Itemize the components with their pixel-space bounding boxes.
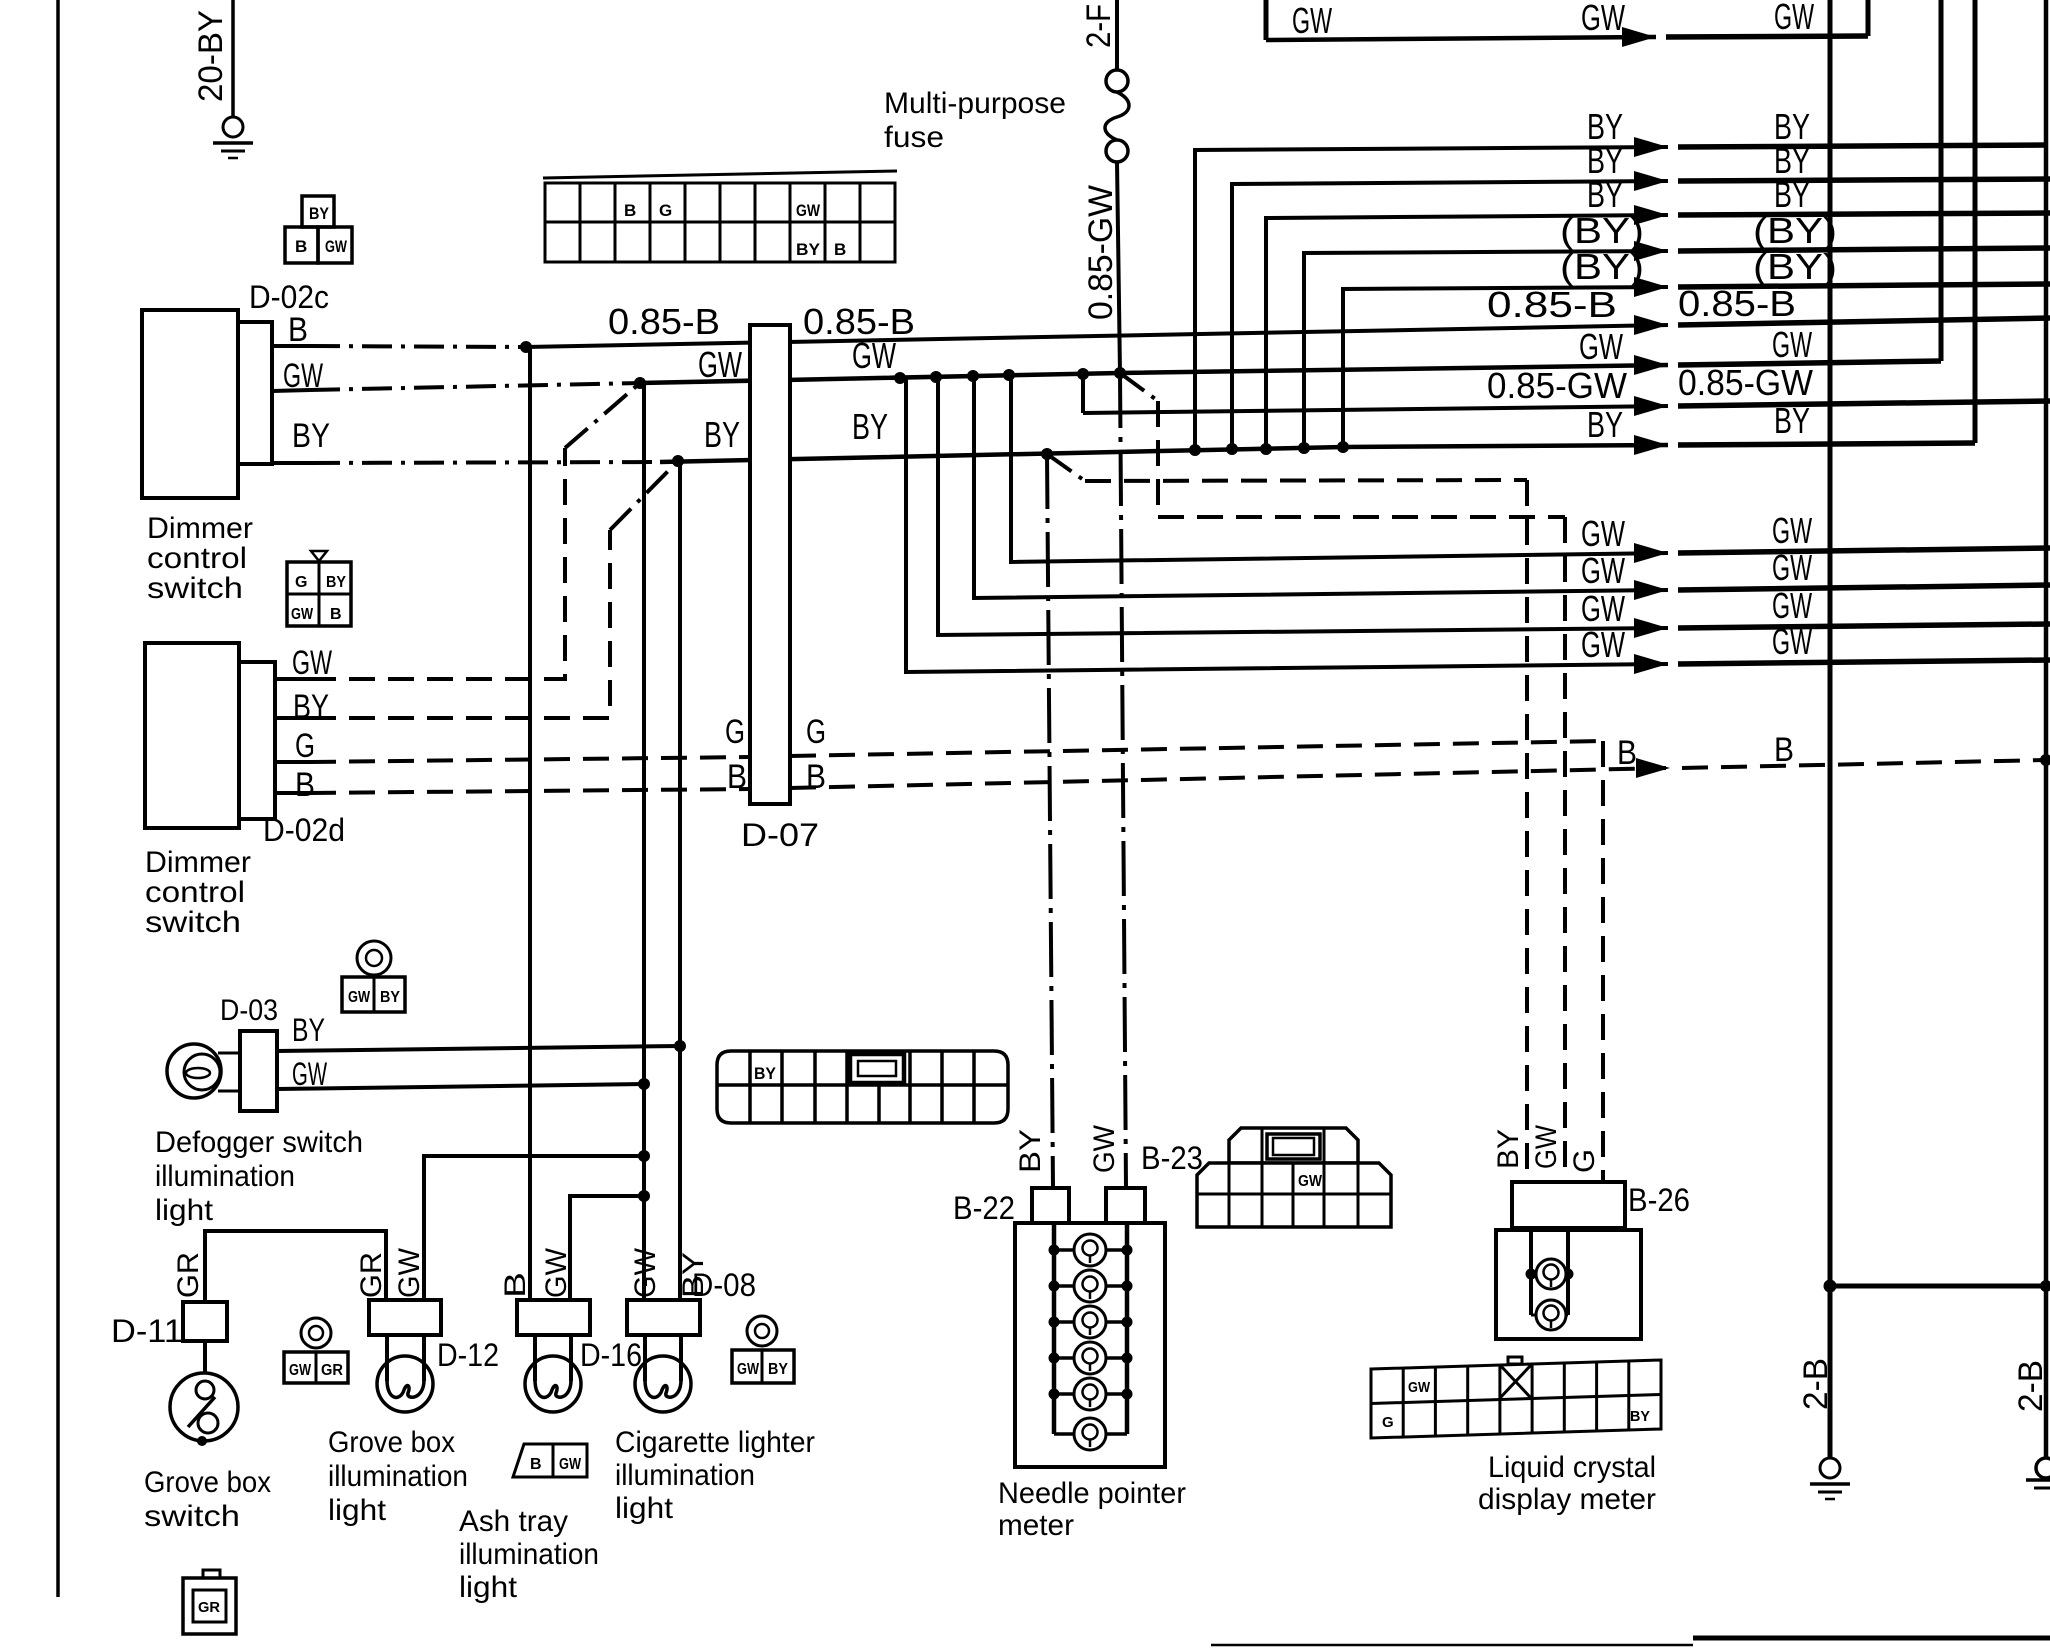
svg-text:B: B xyxy=(295,237,307,256)
svg-text:BY: BY xyxy=(326,574,346,591)
svg-text:GW: GW xyxy=(1772,585,1812,626)
svg-text:GW: GW xyxy=(291,606,314,623)
svg-text:BY: BY xyxy=(1774,174,1810,215)
svg-text:GW: GW xyxy=(1581,513,1625,554)
svg-text:D-11: D-11 xyxy=(111,1313,183,1349)
svg-text:illumination: illumination xyxy=(459,1538,599,1571)
svg-text:B: B xyxy=(295,766,315,804)
svg-text:BY: BY xyxy=(292,417,330,455)
svg-text:20-BY: 20-BY xyxy=(192,10,230,102)
svg-text:GW: GW xyxy=(1298,1173,1323,1190)
svg-text:BY: BY xyxy=(1587,404,1623,445)
svg-text:G: G xyxy=(295,574,307,591)
svg-text:GW: GW xyxy=(1530,1124,1563,1169)
svg-text:G: G xyxy=(295,727,315,765)
svg-text:meter: meter xyxy=(998,1509,1074,1542)
svg-text:GW: GW xyxy=(1581,588,1625,629)
svg-text:switch: switch xyxy=(147,572,243,605)
svg-text:G: G xyxy=(1568,1149,1601,1173)
svg-text:B: B xyxy=(499,1272,532,1298)
svg-text:B: B xyxy=(727,758,747,796)
svg-text:Dimmer: Dimmer xyxy=(147,512,253,545)
svg-text:GW: GW xyxy=(1408,1379,1431,1396)
svg-text:GW: GW xyxy=(1581,550,1625,591)
svg-text:BY: BY xyxy=(292,1012,325,1048)
svg-text:switch: switch xyxy=(144,1500,240,1533)
svg-text:BY: BY xyxy=(796,240,821,259)
svg-text:Ash tray: Ash tray xyxy=(459,1505,568,1538)
svg-text:BY: BY xyxy=(1587,174,1623,215)
svg-text:GW: GW xyxy=(292,1056,328,1092)
svg-text:2-F: 2-F xyxy=(1080,4,1118,48)
svg-text:GW: GW xyxy=(1772,510,1812,551)
svg-text:Grove box: Grove box xyxy=(328,1426,455,1459)
svg-text:GW: GW xyxy=(1292,0,1332,41)
svg-text:light: light xyxy=(328,1494,387,1527)
svg-text:BY: BY xyxy=(309,204,330,223)
svg-text:GR: GR xyxy=(355,1252,388,1298)
svg-text:(BY): (BY) xyxy=(1560,210,1644,251)
svg-text:BY: BY xyxy=(293,688,329,726)
svg-text:GW: GW xyxy=(1579,326,1623,367)
svg-text:D-02d: D-02d xyxy=(263,812,345,848)
svg-text:0.85-GW: 0.85-GW xyxy=(1487,365,1627,406)
svg-text:GW: GW xyxy=(1772,324,1812,365)
svg-text:GW: GW xyxy=(852,335,896,376)
svg-text:B: B xyxy=(1617,734,1637,772)
svg-text:(BY): (BY) xyxy=(1753,210,1837,251)
svg-text:GW: GW xyxy=(292,644,332,682)
svg-text:BY: BY xyxy=(380,989,400,1006)
svg-text:0.85-GW: 0.85-GW xyxy=(1082,185,1120,320)
svg-text:B: B xyxy=(288,311,308,349)
svg-text:G: G xyxy=(1382,1414,1394,1431)
svg-text:B: B xyxy=(1774,731,1794,769)
svg-text:2-B: 2-B xyxy=(1797,1358,1835,1410)
svg-text:D-07: D-07 xyxy=(741,817,819,853)
svg-text:D-02c: D-02c xyxy=(249,279,329,315)
svg-text:BY: BY xyxy=(704,414,740,455)
svg-text:(BY): (BY) xyxy=(1753,246,1837,287)
svg-text:illumination: illumination xyxy=(328,1460,468,1493)
svg-text:GW: GW xyxy=(796,201,821,220)
svg-text:illumination: illumination xyxy=(615,1459,755,1492)
svg-text:Multi-purpose: Multi-purpose xyxy=(884,87,1066,120)
svg-text:Liquid crystal: Liquid crystal xyxy=(1488,1451,1656,1484)
svg-text:BY: BY xyxy=(754,1064,777,1083)
svg-text:control: control xyxy=(145,876,245,909)
svg-text:B: B xyxy=(834,240,846,259)
svg-text:GW: GW xyxy=(540,1247,573,1298)
svg-text:GW: GW xyxy=(1772,547,1812,588)
svg-text:GW: GW xyxy=(1774,0,1814,37)
svg-text:GR: GR xyxy=(198,1599,220,1616)
svg-text:GW: GW xyxy=(393,1247,426,1298)
svg-text:(BY): (BY) xyxy=(1560,246,1644,287)
svg-text:GW: GW xyxy=(325,237,348,256)
svg-text:Needle pointer: Needle pointer xyxy=(998,1477,1186,1510)
svg-text:BY: BY xyxy=(1630,1408,1650,1425)
svg-text:BY: BY xyxy=(1014,1129,1047,1173)
svg-text:BY: BY xyxy=(852,406,888,447)
svg-text:light: light xyxy=(459,1571,518,1604)
svg-text:GW: GW xyxy=(289,1362,312,1379)
svg-text:G: G xyxy=(725,713,745,751)
svg-text:B: B xyxy=(530,1456,542,1473)
svg-text:B: B xyxy=(806,758,826,796)
svg-text:B-22: B-22 xyxy=(953,1190,1015,1226)
svg-text:B-26: B-26 xyxy=(1628,1182,1690,1218)
svg-text:fuse: fuse xyxy=(884,121,944,154)
svg-text:D-03: D-03 xyxy=(220,994,278,1027)
svg-text:0.85-B: 0.85-B xyxy=(608,301,720,342)
svg-text:B: B xyxy=(624,201,636,220)
svg-text:B-23: B-23 xyxy=(1141,1140,1203,1176)
svg-text:GR: GR xyxy=(321,1362,343,1379)
svg-text:BY: BY xyxy=(768,1361,788,1378)
svg-text:illumination: illumination xyxy=(155,1160,295,1193)
svg-text:GW: GW xyxy=(1581,0,1625,38)
svg-text:0.85-GW: 0.85-GW xyxy=(1678,362,1813,403)
svg-text:display meter: display meter xyxy=(1478,1483,1656,1516)
svg-text:light: light xyxy=(615,1492,674,1525)
svg-text:GW: GW xyxy=(629,1247,662,1298)
svg-text:GR: GR xyxy=(172,1252,205,1298)
svg-text:Cigarette lighter: Cigarette lighter xyxy=(615,1426,815,1459)
svg-text:GW: GW xyxy=(348,989,371,1006)
svg-text:Grove box: Grove box xyxy=(144,1466,271,1499)
svg-text:GW: GW xyxy=(737,1361,760,1378)
svg-text:2-B: 2-B xyxy=(2012,1360,2050,1412)
svg-text:G: G xyxy=(659,201,672,220)
svg-text:control: control xyxy=(147,542,247,575)
svg-text:light: light xyxy=(155,1194,214,1227)
svg-text:Defogger switch: Defogger switch xyxy=(155,1126,363,1159)
svg-text:Dimmer: Dimmer xyxy=(145,846,251,879)
svg-text:D-12: D-12 xyxy=(437,1337,499,1373)
svg-text:GW: GW xyxy=(559,1456,582,1473)
svg-text:BY: BY xyxy=(677,1252,710,1298)
svg-text:switch: switch xyxy=(145,906,241,939)
svg-text:G: G xyxy=(806,713,826,751)
svg-text:GW: GW xyxy=(1772,621,1812,662)
svg-text:0.85-B: 0.85-B xyxy=(1487,284,1617,325)
svg-text:GW: GW xyxy=(1088,1124,1121,1173)
svg-text:BY: BY xyxy=(1492,1129,1525,1169)
svg-text:GW: GW xyxy=(698,344,742,385)
svg-text:B: B xyxy=(330,606,342,623)
svg-text:D-16: D-16 xyxy=(580,1337,642,1373)
svg-text:GW: GW xyxy=(1581,624,1625,665)
